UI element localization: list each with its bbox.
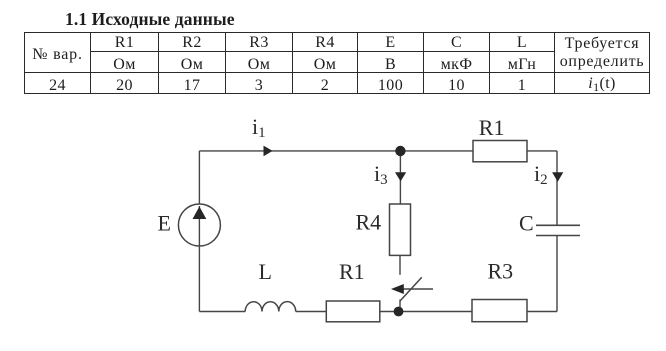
svg-text:R3: R3 xyxy=(488,259,514,284)
inductor L coil xyxy=(245,302,296,312)
switch arrowhead xyxy=(391,284,404,294)
voltage source E internal wire xyxy=(198,206,200,246)
voltage source E arrow xyxy=(193,207,207,220)
resistor R1 (top) xyxy=(473,141,527,162)
switch blade xyxy=(400,277,422,301)
svg-text:i2: i2 xyxy=(534,161,548,188)
wire: top horizontal xyxy=(199,150,557,152)
svg-text:C: C xyxy=(519,211,534,236)
svg-text:R1: R1 xyxy=(339,259,365,284)
svg-text:i3: i3 xyxy=(374,161,388,188)
svg-text:R1: R1 xyxy=(479,115,505,140)
wire: middle branch from top node to R4 xyxy=(399,151,401,204)
svg-text:L: L xyxy=(259,259,272,284)
current arrow i1 xyxy=(264,146,273,157)
switch arrow line xyxy=(403,288,433,290)
current arrow i2 xyxy=(552,172,563,182)
wire: left branch vertical (through source E) xyxy=(198,151,200,312)
switch stub to bottom node xyxy=(399,300,401,312)
wire: right branch lower (capacitor to bottom corner) xyxy=(556,236,558,312)
resistor R1 (bottom) xyxy=(326,301,380,322)
voltage source E circle xyxy=(178,204,220,246)
resistor R4 xyxy=(390,204,411,255)
svg-text:R4: R4 xyxy=(356,210,382,235)
resistor R3 xyxy=(472,300,527,322)
section title xyxy=(65,10,235,28)
wire: right branch upper (R1 corner to capacitor) xyxy=(556,151,558,225)
data table xyxy=(24,32,650,94)
wire: middle branch below R4 xyxy=(399,255,401,274)
svg-text:i1: i1 xyxy=(252,114,266,141)
svg-text:E: E xyxy=(158,211,171,236)
node: bottom junction xyxy=(394,307,404,317)
capacitor C plates xyxy=(536,225,580,235)
node: top junction xyxy=(395,146,405,156)
wire: bottom horizontal (broken under inductor coil) xyxy=(199,311,557,313)
current arrow i3 xyxy=(395,172,406,181)
